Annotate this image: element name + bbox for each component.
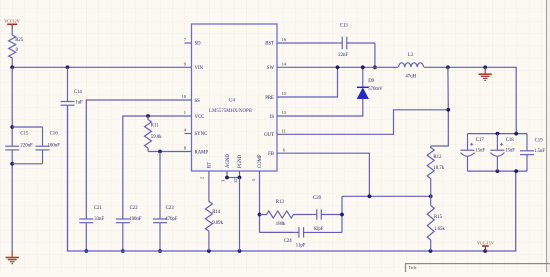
- svg-text:SW: SW: [267, 66, 275, 71]
- svg-text:C19: C19: [535, 138, 544, 143]
- wire branch join: [341, 196, 343, 232]
- svg-text:L3: L3: [408, 53, 414, 58]
- wire bottom rail: [68, 105, 516, 251]
- wire COMP vertical: [259, 171, 261, 232]
- svg-text:C22: C22: [130, 206, 139, 211]
- svg-text:PGND: PGND: [238, 154, 243, 168]
- svg-text:C23: C23: [166, 206, 175, 211]
- svg-text:C20: C20: [313, 196, 322, 201]
- svg-text:62pF: 62pF: [314, 227, 324, 232]
- capacitor C23: [153, 152, 178, 252]
- node AGND: [225, 176, 229, 180]
- U4 pin numbers right: [282, 37, 287, 152]
- svg-text:1: 1: [184, 110, 186, 115]
- svg-text:R15: R15: [434, 215, 443, 220]
- resistor R12: [427, 146, 445, 196]
- svg-text:C16: C16: [50, 131, 59, 136]
- ground GND1: [6, 251, 19, 264]
- capacitor C17: [461, 134, 486, 172]
- resistor R14: [205, 171, 223, 251]
- wire output rail: [424, 67, 516, 133]
- svg-text:C24: C24: [284, 239, 293, 244]
- U4 pin names right: [264, 42, 274, 157]
- svg-text:FB: FB: [268, 152, 274, 157]
- svg-text:15uF: 15uF: [475, 148, 485, 153]
- svg-text:VCC-15V: VCC-15V: [477, 240, 494, 245]
- node output/L3: [446, 65, 450, 69]
- wire output vertical: [431, 67, 449, 146]
- svg-text:47uH: 47uH: [405, 74, 416, 79]
- svg-text:Title: Title: [409, 265, 417, 270]
- svg-text:33nF: 33nF: [94, 217, 104, 222]
- node VCC-15V tap: [483, 249, 487, 253]
- inductor L3: [399, 53, 424, 79]
- svg-text:11pF: 11pF: [296, 244, 306, 249]
- pin 4 SYNC stub: [185, 133, 192, 135]
- node riser bottom: [514, 169, 518, 173]
- svg-text:570mV: 570mV: [368, 87, 383, 92]
- svg-text:OUT: OUT: [264, 133, 274, 138]
- svg-text:100nF: 100nF: [48, 144, 61, 149]
- svg-text:U4: U4: [229, 99, 236, 104]
- node D9/SW: [361, 65, 365, 69]
- diode D9: [357, 67, 383, 98]
- svg-text:220nF: 220nF: [20, 144, 33, 149]
- svg-text:59.0k: 59.0k: [151, 135, 162, 140]
- svg-text:BST: BST: [265, 42, 274, 47]
- wire BST: [277, 42, 337, 44]
- svg-text:15: 15: [282, 91, 287, 96]
- wire input left vertical: [11, 67, 13, 251]
- svg-text:1uF: 1uF: [75, 101, 83, 106]
- capacitor C15: [5, 131, 33, 150]
- svg-text:180k: 180k: [276, 222, 286, 227]
- node C21/rail: [84, 249, 88, 253]
- IC U4 LM5575MHX/NOPB body: [192, 24, 278, 171]
- resistor R13: [260, 200, 313, 227]
- svg-text:SS: SS: [195, 99, 201, 104]
- svg-text:R11: R11: [151, 123, 159, 128]
- svg-text:C21: C21: [94, 206, 103, 211]
- capacitor C18: [490, 134, 515, 172]
- resistor R25: [9, 29, 24, 68]
- svg-text:1.5uF: 1.5uF: [534, 149, 545, 154]
- svg-text:15uF: 15uF: [505, 148, 515, 153]
- U4 pin names left: [195, 42, 209, 156]
- svg-text:470pF: 470pF: [165, 217, 178, 222]
- node R11 top: [146, 114, 150, 118]
- node C14 tap: [66, 65, 70, 69]
- capacitor C14: [61, 67, 83, 251]
- wire PGND down: [239, 178, 241, 252]
- capacitor C24: [284, 227, 342, 248]
- wire cap bank bottom rail: [468, 170, 528, 172]
- svg-text:11: 11: [282, 129, 286, 134]
- wire VCC: [123, 116, 192, 219]
- svg-text:RT: RT: [208, 162, 213, 168]
- U4 pin numbers bottom: [200, 177, 257, 183]
- node PRE/SW: [336, 65, 340, 69]
- wire RAMP: [148, 151, 192, 153]
- svg-text:R25: R25: [15, 38, 24, 43]
- capacitor C20: [312, 196, 342, 232]
- node R25/VIN junction: [10, 65, 14, 69]
- wire AGND-PGND tie: [227, 177, 240, 179]
- wire FB rail: [342, 195, 431, 197]
- svg-text:PRE: PRE: [265, 96, 274, 101]
- svg-text:R14: R14: [212, 210, 221, 215]
- sheet border: [546, 0, 548, 272]
- svg-text:10: 10: [182, 94, 187, 99]
- svg-text:LM5575MHX/NOPB: LM5575MHX/NOPB: [209, 109, 253, 114]
- svg-text:C14: C14: [74, 90, 83, 95]
- resistor R11: [145, 116, 163, 152]
- svg-text:2: 2: [200, 177, 205, 179]
- svg-text:R13: R13: [276, 200, 285, 205]
- capacitor C13: [337, 24, 375, 58]
- svg-text:IS: IS: [270, 115, 275, 120]
- node PGND line/rail: [238, 249, 242, 253]
- wire FB pin: [277, 153, 369, 196]
- wire COMP lower branch: [260, 231, 295, 233]
- svg-text:D9: D9: [368, 79, 374, 84]
- svg-text:100nF: 100nF: [129, 217, 142, 222]
- wire C13 riser: [374, 43, 376, 67]
- pin 7 SD stub: [185, 42, 192, 44]
- node C23/rail: [158, 249, 162, 253]
- svg-text:SYNC: SYNC: [195, 132, 208, 137]
- U4 pin numbers left: [182, 37, 187, 150]
- wire cap bank top rail: [468, 133, 528, 135]
- node C16 top: [10, 125, 14, 129]
- svg-text:22nF: 22nF: [338, 53, 348, 58]
- svg-text:C18: C18: [506, 138, 515, 143]
- svg-text:VCC: VCC: [195, 115, 205, 120]
- svg-text:C13: C13: [340, 24, 349, 29]
- node riser top: [514, 132, 518, 136]
- wire AGND stub: [226, 171, 228, 178]
- wire OUT: [277, 110, 448, 135]
- svg-text:C15: C15: [20, 131, 29, 136]
- wire VIN rail: [12, 66, 191, 68]
- node OUT/vertical: [446, 108, 450, 112]
- resistor R15: [427, 196, 445, 251]
- node R14/rail: [207, 249, 211, 253]
- ground GND2: [479, 67, 492, 80]
- node PGND: [238, 176, 242, 180]
- node C18 bottom: [496, 169, 500, 173]
- svg-text:18.7k: 18.7k: [433, 166, 444, 171]
- capacitor C21: [79, 206, 104, 251]
- svg-text:C17: C17: [476, 138, 485, 143]
- wire SW rail: [277, 66, 398, 68]
- wire IS: [277, 99, 363, 116]
- svg-text:COMP: COMP: [258, 154, 263, 168]
- capacitor C22: [116, 206, 142, 251]
- node C23 tap: [158, 150, 162, 154]
- svg-text:R12: R12: [433, 155, 442, 160]
- capacitor C19: [520, 134, 545, 172]
- svg-text:16: 16: [282, 37, 287, 42]
- svg-text:12: 12: [233, 179, 238, 184]
- node C22/rail: [121, 249, 125, 253]
- svg-text:SD: SD: [195, 42, 202, 47]
- svg-text:9.09k: 9.09k: [212, 221, 223, 226]
- node R12/R15 junction: [429, 194, 433, 198]
- wire SS: [86, 100, 191, 219]
- wire PRE: [277, 67, 338, 97]
- svg-text:AGND: AGND: [226, 154, 231, 168]
- svg-text:VCC12V: VCC12V: [4, 19, 20, 24]
- node C16 bottom: [10, 162, 14, 166]
- power flag VCC12V: [4, 19, 20, 29]
- capacitor C16: [12, 127, 60, 164]
- svg-text:13: 13: [282, 110, 287, 115]
- node COMP branch: [258, 213, 262, 217]
- node C13/SW: [373, 65, 377, 69]
- node R15/rail: [429, 249, 433, 253]
- U4 pin names bottom: [208, 154, 264, 168]
- node branch join: [340, 213, 344, 217]
- wire PGND stub: [239, 171, 241, 178]
- svg-text:VIN: VIN: [195, 66, 204, 71]
- title block: [406, 264, 550, 274]
- node FB tap: [368, 194, 372, 198]
- node gnd tap: [483, 65, 487, 69]
- svg-text:1.65k: 1.65k: [434, 227, 445, 232]
- power flag VCC-15V: [477, 240, 494, 251]
- svg-text:14: 14: [282, 62, 287, 67]
- svg-text:RAMP: RAMP: [195, 150, 209, 155]
- node C18 top: [496, 132, 500, 136]
